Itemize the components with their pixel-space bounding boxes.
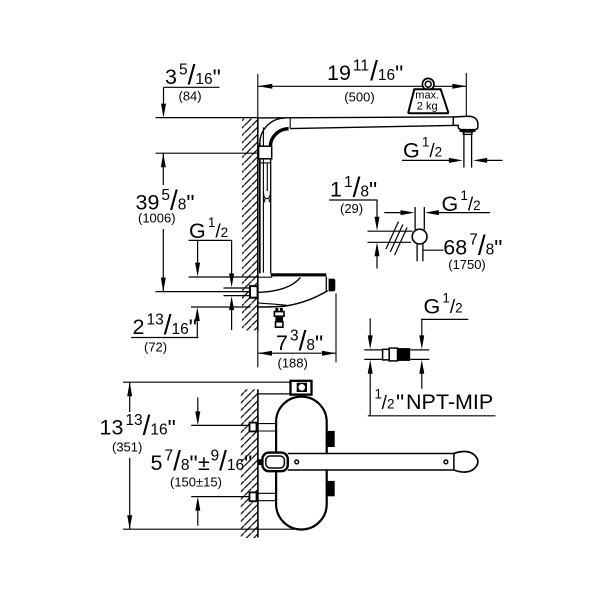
svg-text:3: 3 (165, 65, 177, 89)
svg-text:": " (395, 61, 403, 87)
svg-text:(72): (72) (144, 340, 167, 355)
svg-text:16: 16 (150, 422, 167, 439)
svg-text:2: 2 (473, 198, 481, 213)
svg-text:(1750): (1750) (448, 257, 486, 272)
wall (lower) face line (257, 389, 259, 537)
G 1/2 dimension arrows at union (384, 212, 401, 214)
ceiling reference line (156, 117, 258, 119)
dimension 39 5/8 line + arrows (162, 153, 164, 185)
svg-text:": " (315, 331, 323, 357)
hand shower hose connector below body (275, 308, 278, 312)
svg-text:9: 9 (210, 447, 219, 464)
hose union nut at wall (250, 286, 258, 298)
svg-text:(188): (188) (278, 356, 308, 371)
dimension 3 5/16 shelf line (164, 86, 220, 88)
upper bracket reference line (156, 152, 258, 154)
svg-text:1: 1 (208, 215, 216, 230)
svg-text:2: 2 (221, 225, 229, 240)
dim 19 11/16 arrowheads (258, 84, 272, 89)
dimension 2 13/16 shelf (131, 337, 198, 339)
bar end pommel (454, 451, 478, 472)
dimension 5 7/8 arrows (197, 398, 199, 413)
svg-text:2: 2 (435, 145, 443, 160)
outlet flange (dark underside) (460, 130, 476, 131)
max 2 kg weight symbol (422, 78, 434, 90)
shower rail pipe left edge (259, 143, 261, 273)
svg-text:16: 16 (171, 321, 188, 338)
svg-text:G: G (403, 139, 420, 163)
svg-text:19: 19 (327, 61, 351, 85)
wall bracket stubs (lower) (258, 492, 276, 494)
hose axis reference line (156, 291, 251, 293)
svg-text:8: 8 (181, 457, 190, 474)
svg-text:1: 1 (460, 188, 468, 203)
dimension 13 13/16 line + arrows (129, 382, 131, 412)
rail seam below collar (260, 162, 271, 164)
arm bend outer curve (260, 118, 285, 143)
svg-text:7: 7 (276, 331, 288, 355)
hose top edge (224, 287, 251, 289)
svg-text:1: 1 (344, 174, 353, 191)
svg-text:5: 5 (151, 451, 163, 475)
union ball (412, 229, 427, 244)
svg-text:5: 5 (161, 187, 170, 204)
svg-text:": " (244, 451, 252, 477)
outlet nut (463, 132, 465, 135)
dimension 7 3/8 line + arrows (258, 352, 336, 354)
top reference line (bottom assembly) (123, 381, 290, 383)
bar screw dots (295, 460, 299, 464)
svg-text:2: 2 (387, 397, 395, 412)
dimension 2 13/16 arrow (195, 307, 200, 321)
svg-text:16: 16 (195, 71, 212, 88)
top fitting stub lines (258, 393, 291, 395)
outlet pipe G1/2 (463, 134, 465, 167)
svg-text:": " (213, 65, 221, 91)
svg-text:1: 1 (442, 291, 450, 306)
union detail wall hatching (386, 222, 399, 250)
arm bend inner curve (thick) (270, 129, 288, 147)
svg-text:7: 7 (469, 232, 478, 249)
dimension 1 1/8 arrows (376, 200, 378, 218)
shower arm underside (290, 125, 453, 128)
svg-text:8: 8 (486, 241, 495, 258)
lower bracket reference line (bottom) (191, 496, 249, 498)
wall (upper) face line (257, 118, 259, 331)
svg-text:13: 13 (125, 412, 142, 429)
SmartControl grip knob (258, 459, 263, 465)
svg-text:8: 8 (306, 337, 315, 354)
svg-text:16: 16 (227, 457, 244, 474)
body buttons (black tabs) (327, 431, 335, 447)
bottom reference line (bottom assembly) (123, 528, 294, 530)
svg-text:5: 5 (179, 61, 188, 78)
68 7/8 leader line (424, 249, 444, 251)
shower rail pipe right edge (270, 147, 272, 273)
svg-text:(150±15): (150±15) (170, 475, 222, 490)
G 1/2 arrow to holder plane (197, 240, 199, 263)
svg-text:8: 8 (178, 197, 187, 214)
svg-text:3: 3 (290, 327, 299, 344)
adapter pipe lines (364, 349, 382, 351)
svg-text:(500): (500) (344, 90, 374, 105)
extension line right (outlet centre) (465, 73, 467, 117)
svg-text:±: ± (198, 451, 210, 475)
wall bracket square (lower) (250, 492, 257, 501)
svg-text:NPT-MIP: NPT-MIP (406, 390, 493, 414)
body top line at wall (258, 276, 273, 278)
dimension 3 5/16 arrow down to ceiling line (163, 87, 165, 115)
extension line right (body end) (335, 293, 337, 362)
svg-text:13: 13 (146, 311, 163, 328)
thermostat body capsule (276, 397, 327, 530)
body underside curve (258, 291, 328, 307)
svg-text:": " (189, 315, 197, 341)
svg-text:(84): (84) (179, 89, 202, 104)
extension line left (wall face, below wall) (257, 331, 259, 368)
svg-text:(1006): (1006) (138, 211, 176, 226)
svg-text:8: 8 (360, 184, 369, 201)
shower arm seam at bend (289, 118, 291, 129)
adapter body (383, 349, 390, 360)
rail inner line (262, 128, 264, 273)
svg-text:1: 1 (422, 135, 430, 150)
holder top reference line (189, 276, 258, 278)
svg-text:": " (168, 415, 176, 441)
svg-text:": " (186, 190, 194, 216)
svg-text:1: 1 (330, 178, 342, 202)
svg-text:": " (189, 451, 197, 477)
rail wall bracket collar (259, 146, 272, 159)
svg-text:G: G (442, 192, 459, 216)
svg-text:": " (494, 235, 502, 261)
wall (upper, side view) hatching (242, 118, 258, 330)
extension line left (wall face) (257, 74, 259, 118)
body right edge (325, 276, 327, 290)
union detail wall surface lines (368, 230, 413, 232)
hand shower handle profile on rail (266, 164, 268, 191)
svg-text:": " (369, 177, 377, 203)
wall bracket stubs (upper) (258, 423, 276, 425)
hose bottom edge (224, 295, 251, 297)
svg-text:(29): (29) (340, 201, 363, 216)
G 1/2 arrows to hose (231, 240, 233, 274)
svg-text:7: 7 (164, 447, 173, 464)
holder bottom reference line (191, 306, 251, 308)
body control knob (right, black) (329, 279, 336, 292)
svg-text:68: 68 (443, 235, 467, 259)
union pipe below (416, 244, 418, 261)
bar seam (453, 454, 455, 471)
svg-text:2: 2 (133, 315, 145, 339)
svg-text:11: 11 (353, 57, 369, 74)
svg-text:G: G (189, 219, 206, 243)
top fitting (291, 381, 312, 395)
G 1/2 arrows (adapter) (421, 319, 423, 336)
wall (lower, top view) hatching (241, 389, 258, 538)
svg-text:": " (396, 390, 404, 416)
elbow at arm end (453, 116, 478, 129)
svg-text:2: 2 (455, 300, 463, 315)
shower arm top edge (258, 116, 454, 119)
svg-text:2 kg: 2 kg (417, 101, 438, 113)
upper bracket reference line (bottom) (191, 424, 249, 426)
svg-text:G: G (424, 294, 441, 318)
holder cradle curve (258, 277, 301, 292)
svg-text:13: 13 (100, 416, 124, 440)
wall bracket square (upper) (250, 423, 257, 432)
union pipe above (414, 207, 416, 230)
svg-text:(351): (351) (112, 440, 142, 455)
cradle lip line (258, 303, 287, 305)
grip bar (288, 454, 454, 469)
body top black band (271, 273, 327, 276)
dimension 19 11/16 line with arrows (258, 85, 466, 87)
NPT arrows (adapter) (369, 318, 371, 336)
svg-text:16: 16 (378, 67, 395, 84)
